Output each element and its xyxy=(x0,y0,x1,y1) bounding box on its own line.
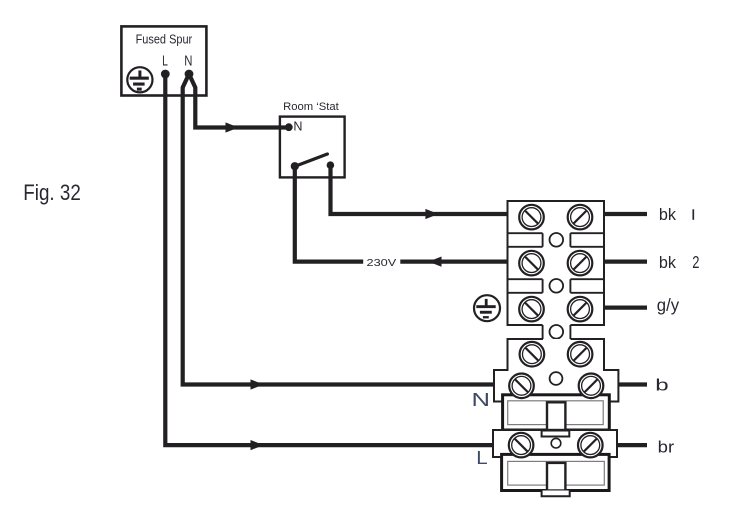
svg-text:L: L xyxy=(476,448,488,469)
svg-text:230V: 230V xyxy=(367,258,397,269)
svg-text:br: br xyxy=(658,437,675,456)
svg-text:Room ‘Stat: Room ‘Stat xyxy=(283,101,340,113)
svg-text:b: b xyxy=(655,376,668,395)
svg-text:g/y: g/y xyxy=(657,295,679,315)
svg-text:N: N xyxy=(293,120,302,134)
svg-text:Fig. 32: Fig. 32 xyxy=(23,180,81,205)
svg-text:bk: bk xyxy=(659,206,677,224)
svg-text:bk: bk xyxy=(659,254,677,272)
svg-text:2: 2 xyxy=(692,252,699,272)
svg-text:N: N xyxy=(472,389,491,410)
svg-text:N: N xyxy=(184,53,192,69)
svg-text:L: L xyxy=(162,53,168,69)
svg-text:Fused Spur: Fused Spur xyxy=(136,32,193,46)
